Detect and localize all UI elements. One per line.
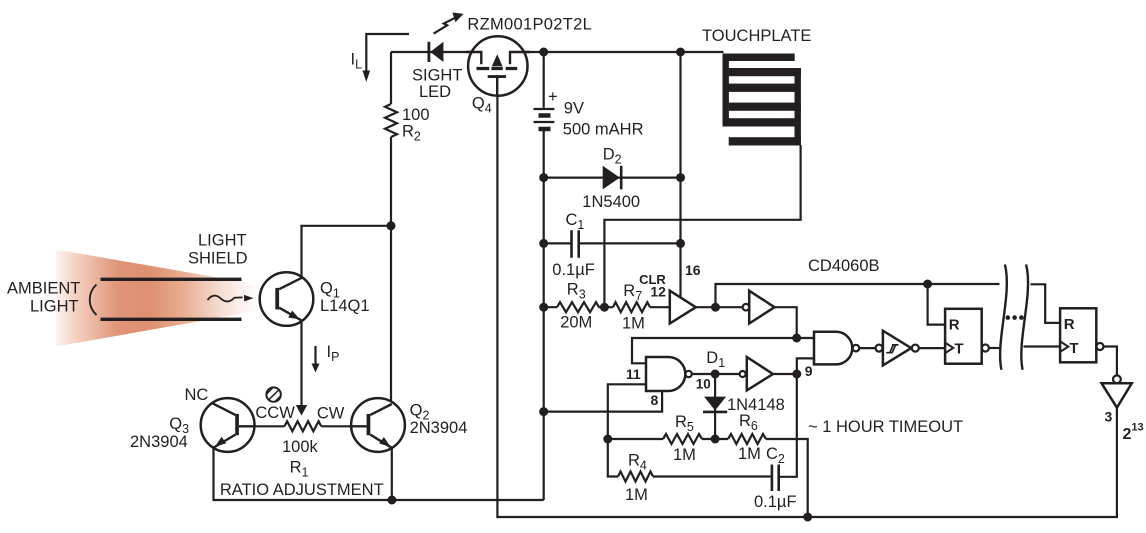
svg-text:CW: CW: [317, 405, 345, 423]
svg-text:16: 16: [685, 262, 701, 278]
svg-text:20M: 20M: [560, 314, 592, 332]
svg-text:1M: 1M: [622, 314, 645, 332]
svg-text:NC: NC: [185, 386, 209, 404]
svg-text:RZM001P02T2L: RZM001P02T2L: [467, 16, 592, 34]
svg-text:12: 12: [650, 284, 666, 300]
svg-text:+: +: [548, 88, 558, 106]
svg-text:8: 8: [651, 392, 659, 408]
svg-text:500 mAHR: 500 mAHR: [563, 121, 644, 139]
svg-text:L14Q1: L14Q1: [320, 297, 370, 315]
svg-text:LIGHT: LIGHT: [30, 298, 79, 316]
svg-text:~ 1 HOUR TIMEOUT: ~ 1 HOUR TIMEOUT: [808, 418, 963, 436]
svg-text:2N3904: 2N3904: [410, 419, 468, 437]
svg-text:AMBIENT: AMBIENT: [7, 280, 80, 298]
svg-text:100: 100: [402, 106, 430, 124]
svg-text:2N3904: 2N3904: [130, 433, 188, 451]
svg-text:LIGHT: LIGHT: [198, 232, 247, 250]
svg-text:R: R: [1064, 316, 1075, 333]
svg-text:3: 3: [1105, 408, 1113, 424]
svg-text:CCW: CCW: [255, 404, 295, 422]
svg-text:LED: LED: [419, 83, 451, 101]
svg-text:0.1µF: 0.1µF: [552, 261, 595, 279]
svg-text:0.1µF: 0.1µF: [754, 493, 797, 511]
svg-text:CD4060B: CD4060B: [808, 257, 880, 275]
svg-text:R: R: [949, 316, 960, 333]
svg-text:RATIO ADJUSTMENT: RATIO ADJUSTMENT: [220, 481, 384, 499]
svg-text:100k: 100k: [282, 438, 319, 456]
svg-text:11: 11: [626, 366, 641, 382]
svg-text:SHIELD: SHIELD: [188, 250, 248, 268]
svg-text:9V: 9V: [564, 100, 584, 118]
svg-text:1N5400: 1N5400: [582, 193, 640, 211]
svg-text:1M: 1M: [673, 446, 696, 464]
svg-text:1M: 1M: [625, 486, 648, 504]
svg-text:9: 9: [805, 363, 813, 379]
svg-text:TOUCHPLATE: TOUCHPLATE: [702, 27, 811, 45]
svg-text:T: T: [1069, 340, 1078, 357]
svg-text:10: 10: [696, 377, 711, 392]
svg-text:1N4148: 1N4148: [727, 396, 785, 414]
svg-text:T: T: [954, 341, 963, 358]
svg-text:1M: 1M: [738, 445, 761, 463]
